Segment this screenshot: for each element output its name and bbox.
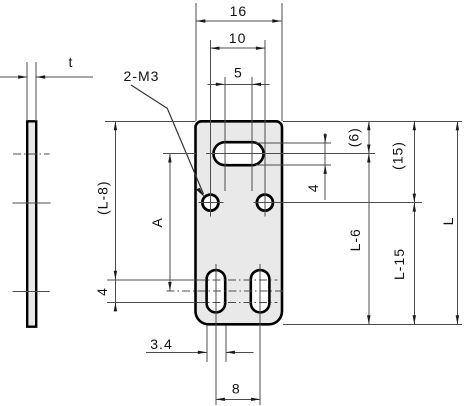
dimension 3.4 line left segment [146, 351, 207, 353]
hole right horizontal centerline with right extension [253, 202, 422, 204]
hole centerline vertical left (extension for 10) [210, 40, 212, 217]
dimension 16 arrow left [196, 19, 205, 22]
svg-text:A: A [149, 217, 165, 227]
slot arc-center line vertical right (extension for 5) [251, 77, 253, 191]
dimension t arrow right-pointing [18, 75, 27, 78]
dimension 5 arrow pointing left [252, 83, 261, 86]
slot bottom edge extension right [256, 164, 332, 166]
dimension 3.4 arrow pointing left [226, 351, 235, 354]
dimension L-6 arrow down [367, 315, 370, 324]
dimension (L-8) line [114, 121, 116, 310]
dimension A line [169, 154, 171, 292]
bottom slot right edge extension (for 3.4) [225, 326, 227, 363]
dimension A arrow down [168, 282, 171, 291]
dimension 5 arrow pointing right [216, 83, 225, 86]
dimension 4 right arrow up [324, 165, 327, 174]
extension line plate top to left [105, 120, 196, 122]
dimension 16 line [196, 20, 281, 22]
dimension (15) arrow down [413, 194, 416, 203]
dimension (15) and L-15 line [413, 121, 415, 324]
dimension L arrow up [456, 121, 459, 130]
bottom slot right (obround) [251, 270, 270, 312]
svg-text:(15): (15) [389, 141, 405, 170]
dimension L-15 arrow up [413, 203, 416, 212]
dimension t line right segment [36, 76, 93, 78]
svg-text:t: t [69, 54, 74, 70]
dimension 8 arrow left [216, 398, 225, 401]
svg-text:16: 16 [230, 3, 248, 19]
slot arc-center line vertical left (extension for 5) [224, 77, 226, 191]
dimension (6) and L-6 line [368, 121, 370, 324]
dimension L-15 arrow down [413, 315, 416, 324]
slot centerline left extension [163, 153, 195, 155]
leader arrowhead [196, 188, 205, 198]
side view centerline lower (bottom slot level) [13, 290, 50, 292]
side view plate (left, thin section) [27, 121, 36, 326]
svg-text:5: 5 [234, 65, 243, 81]
bottom slot centerline horizontal (dashed) [167, 290, 286, 292]
extension line plate right edge (for 16) [281, 3, 283, 121]
dimension 4 right line [324, 133, 326, 200]
front view plate body [196, 121, 283, 324]
dimension (L-8) arrow down [114, 271, 117, 280]
hole centerline vertical right (extension for 10) [264, 40, 266, 217]
plate top edge extension right [283, 120, 462, 122]
side view centerline middle (hole level) [12, 202, 50, 204]
bottom slot lower arc-center line (left extension) [107, 301, 196, 303]
svg-text:L-6: L-6 [347, 228, 363, 251]
dimension 16 arrow right [272, 19, 281, 22]
svg-text:3.4: 3.4 [150, 336, 172, 352]
dimension (15) arrow up [413, 121, 416, 130]
slot horizontal centerline through plate to right [206, 153, 375, 155]
dimension (6) arrow down [367, 145, 370, 154]
svg-text:(6): (6) [345, 127, 361, 147]
dimension (L-8) arrow up [114, 121, 117, 130]
top slot (obround) [214, 142, 264, 165]
dimension 8 arrow right [251, 398, 260, 401]
leader line 2-M3 [131, 85, 204, 194]
dimension 4 left arrow up (below lower line) [114, 302, 117, 311]
svg-text:L: L [440, 217, 456, 226]
svg-text:8: 8 [232, 381, 241, 397]
dimension t line left segment [0, 76, 27, 78]
dimension A arrow up [168, 154, 171, 163]
dimension 4 right arrow down [324, 134, 327, 143]
dimension 3.4 line right segment [226, 351, 254, 353]
dimension L-6 arrow up [367, 154, 370, 163]
dimension 10 arrow left [211, 47, 220, 50]
bottom slot left vertical centerline (extension for 8) [215, 264, 217, 405]
svg-text:L-15: L-15 [391, 248, 407, 280]
slot top edge extension right [256, 142, 332, 144]
hole left horizontal centerline [199, 202, 224, 204]
svg-text:(L-8): (L-8) [94, 180, 110, 215]
dimension L arrow down [456, 315, 459, 324]
dimension t extension lines [26, 62, 28, 121]
bottom slot upper arc-center line (dashed across plate) [197, 279, 278, 281]
bottom slot lower arc-center line (dashed across plate) [197, 301, 278, 303]
dimension L line [456, 121, 458, 324]
bottom slot left (obround) [207, 270, 226, 312]
hole right (M3) [257, 195, 273, 211]
bottom slot upper arc-center line (left extension) [107, 279, 196, 281]
dimension 5 line [208, 83, 270, 85]
dimension (6) arrow up [367, 121, 370, 130]
bottom slot left edge extension (for 3.4) [206, 326, 208, 363]
dimension t arrow left-pointing [36, 75, 45, 78]
extension line plate left edge (for 16) [195, 3, 197, 121]
dimension 10 arrow right [256, 47, 265, 50]
hole left (M3) [202, 195, 218, 211]
dimension 10 line [211, 47, 265, 49]
dimension 3.4 arrow pointing right [198, 351, 207, 354]
side view centerline upper (slot level) [13, 153, 50, 155]
plate bottom edge extension right [283, 323, 462, 325]
svg-text:4: 4 [305, 183, 321, 192]
svg-text:10: 10 [229, 30, 247, 46]
bottom slot right vertical centerline (extension for 8) [259, 264, 261, 405]
dimension 8 line [216, 398, 260, 400]
svg-text:2-M3: 2-M3 [124, 68, 160, 84]
svg-text:4: 4 [94, 287, 110, 296]
